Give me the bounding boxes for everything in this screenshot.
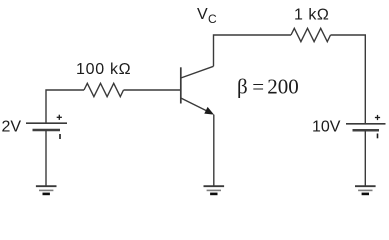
ground (middle, emitter) — [204, 186, 225, 194]
svg-text:1 kΩ: 1 kΩ — [294, 7, 329, 24]
label 10V — [312, 118, 341, 135]
wire: 2V battery positive up and over to R1 — [46, 90, 84, 123]
resistor R1 100 kOhm — [84, 83, 124, 96]
battery V2 10V positive plate — [346, 123, 386, 125]
battery V2 plus mark — [375, 115, 380, 120]
battery V2 10V negative plate — [353, 129, 380, 132]
label beta = 200 — [237, 74, 299, 98]
wire: 10V battery negative down to ground — [364, 130, 366, 186]
svg-text:10V: 10V — [312, 118, 341, 135]
transistor Q1 emitter lead with arrow — [181, 98, 214, 115]
wire: 2V battery negative down to ground — [45, 130, 47, 186]
ground (left, under 2V battery) — [36, 186, 57, 194]
battery V1 minus mark — [59, 134, 61, 139]
battery V2 minus mark — [377, 134, 379, 139]
wire: emitter down to ground — [213, 115, 215, 186]
resistor R2 1 kOhm — [291, 28, 331, 41]
battery V1 2V positive plate — [26, 122, 67, 124]
svg-text:2V: 2V — [2, 118, 22, 135]
svg-text:V: V — [197, 6, 208, 23]
wire: R1 to base of Q1 — [124, 89, 181, 91]
transistor Q1 base bar — [180, 67, 182, 103]
label 100 kOhm — [76, 61, 131, 78]
wire: R2 to 10V battery positive — [331, 35, 366, 124]
label 2V — [2, 118, 22, 135]
battery V1 2V negative plate — [33, 129, 61, 132]
battery V1 plus mark — [57, 115, 62, 120]
wire: collector up to top rail — [214, 35, 292, 66]
transistor Q1 collector lead — [181, 66, 214, 78]
node VC label — [197, 6, 217, 26]
svg-text:β=200: β=200 — [237, 74, 299, 98]
label 1 kOhm — [294, 7, 329, 24]
svg-text:C: C — [208, 12, 217, 26]
ground (right, under 10V battery) — [355, 186, 376, 194]
svg-text:100 kΩ: 100 kΩ — [76, 61, 131, 78]
